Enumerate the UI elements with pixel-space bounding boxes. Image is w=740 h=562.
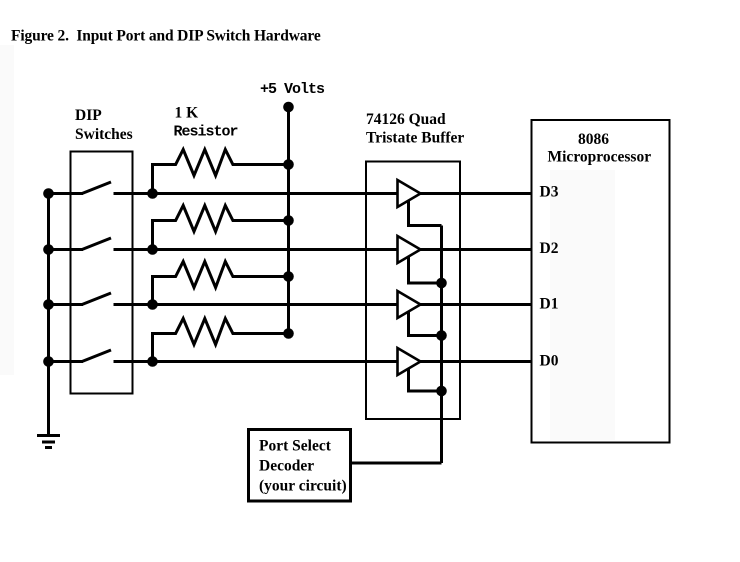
switch S3 lever xyxy=(82,293,111,305)
svg-text:Microprocessor: Microprocessor xyxy=(548,149,652,166)
wire row3 right xyxy=(421,303,532,306)
node control row4 xyxy=(436,386,447,397)
svg-text:1 K: 1 K xyxy=(175,105,199,122)
svg-text:Figure 2. Input Port and DIP: Figure 2. Input Port and DIP Switch Hard… xyxy=(11,28,321,45)
node R3 right xyxy=(283,271,294,282)
Port Select Decoder box xyxy=(249,430,351,502)
node bus row3 xyxy=(43,299,54,310)
wire row3 left xyxy=(49,303,84,306)
buffer U1C xyxy=(398,291,421,318)
wire row2 right xyxy=(421,248,532,251)
wire row4 left xyxy=(49,360,84,363)
switch S2 lever xyxy=(82,238,111,250)
svg-text:Tristate Buffer: Tristate Buffer xyxy=(366,130,464,147)
svg-text:Decoder: Decoder xyxy=(259,458,314,475)
node R1 right xyxy=(283,159,294,170)
buffer U1C control wire xyxy=(409,309,442,336)
wire control to decoder xyxy=(352,462,442,465)
node R2 right xyxy=(283,215,294,226)
buffer U1D control wire xyxy=(409,366,442,391)
buffer U1B control wire xyxy=(409,254,442,283)
74126 box xyxy=(366,162,460,420)
wire row3 mid xyxy=(114,303,399,306)
node bus row2 xyxy=(43,244,54,255)
wire row1 left xyxy=(49,192,84,195)
node R1 left xyxy=(147,188,158,199)
svg-text:(your circuit): (your circuit) xyxy=(259,478,347,495)
ground bus wire (left vertical) xyxy=(47,194,50,436)
svg-text:DIP: DIP xyxy=(75,107,102,124)
resistor R3 xyxy=(153,262,289,305)
wire row2 mid xyxy=(114,248,399,251)
node R2 left xyxy=(147,244,158,255)
node R4 left xyxy=(147,356,158,367)
buffer U1A control wire xyxy=(409,198,442,226)
wire row1 right xyxy=(421,192,532,195)
wire row4 right xyxy=(421,360,532,363)
faint background patch inside 8086 xyxy=(550,170,615,440)
node R3 left xyxy=(147,299,158,310)
resistor R4 xyxy=(153,319,289,362)
control bus vertical xyxy=(440,226,443,464)
node bus row4 xyxy=(43,356,54,367)
faint background patch left xyxy=(0,45,14,375)
resistor R1 xyxy=(153,150,289,194)
svg-text:+5 Volts: +5 Volts xyxy=(260,81,325,98)
svg-text:74126 Quad: 74126 Quad xyxy=(366,111,446,128)
wire row4 mid xyxy=(114,360,399,363)
svg-text:D2: D2 xyxy=(540,240,559,257)
node control row3 xyxy=(436,330,447,341)
switch S1 lever xyxy=(82,182,111,194)
ground symbol xyxy=(37,436,60,448)
+5V vertical rail xyxy=(287,107,290,334)
resistor R2 xyxy=(153,206,289,250)
svg-text:D0: D0 xyxy=(540,353,559,370)
svg-text:Resistor: Resistor xyxy=(174,124,238,141)
switch S4 lever xyxy=(82,350,111,362)
node R4 right xyxy=(283,328,294,339)
wire row2 left xyxy=(49,248,84,251)
buffer U1B xyxy=(398,236,421,263)
wire row1 mid xyxy=(114,192,399,195)
DIP switch box xyxy=(71,152,133,394)
buffer U1D xyxy=(398,348,421,375)
svg-text:Switches: Switches xyxy=(75,126,133,143)
node control row2 xyxy=(436,278,447,289)
node bus row1 xyxy=(43,188,54,199)
svg-text:D1: D1 xyxy=(540,296,559,313)
svg-text:D3: D3 xyxy=(540,184,559,201)
buffer U1A xyxy=(398,180,421,207)
+5V terminal dot xyxy=(283,102,294,113)
svg-text:8086: 8086 xyxy=(578,131,609,148)
8086 box xyxy=(532,120,670,443)
svg-text:Port Select: Port Select xyxy=(259,438,332,455)
